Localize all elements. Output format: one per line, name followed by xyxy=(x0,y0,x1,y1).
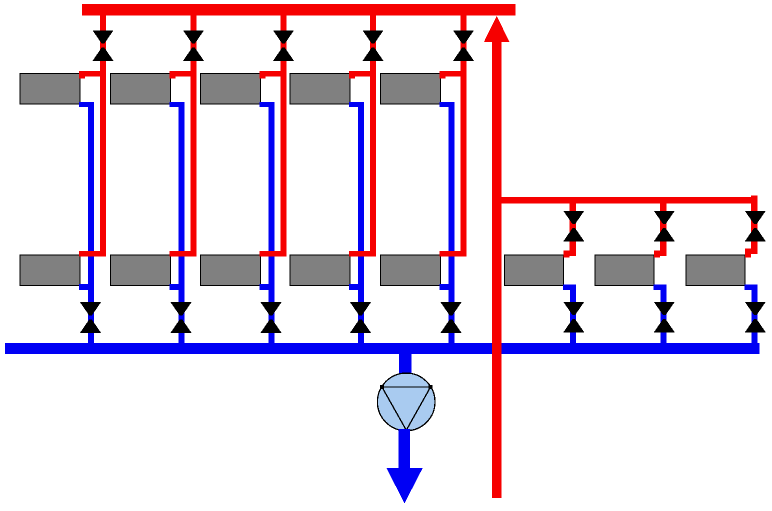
supply drop pipe, left column 3 (red) xyxy=(281,16,287,257)
radiator R9 (lower left row) xyxy=(290,255,350,286)
return drop pipe, left column 5 (blue) xyxy=(449,102,455,344)
branch supply pipe (red, to right) xyxy=(497,197,758,204)
valve V7 (supply, right branch column 2) xyxy=(654,211,675,242)
return stub from radiator R2 (blue elbow) xyxy=(170,102,185,107)
return drop pipe, right branch column 1 (blue) xyxy=(570,285,576,344)
return drop pipe, left column 2 (blue) xyxy=(179,102,185,344)
radiator R3 (upper left row) xyxy=(201,74,261,105)
pump discharge pipe (blue) xyxy=(399,429,411,469)
valve V9 (return, left column 1) xyxy=(80,302,101,333)
radiator R2 (upper left row) xyxy=(111,74,171,105)
radiator R12 (right branch row) xyxy=(595,255,654,286)
return drop pipe, left column 3 (blue) xyxy=(269,102,275,344)
radiator R13 (right branch row) xyxy=(686,255,745,286)
return stub from radiator R5 (blue elbow) xyxy=(440,102,455,107)
return stub from radiator R12 (blue elbow) xyxy=(654,285,666,290)
supply drop pipe, left column 1 (red) xyxy=(100,16,106,257)
return stub from radiator R10 (blue elbow) xyxy=(440,284,455,290)
pump suction pipe (blue tee from return main) xyxy=(399,353,411,375)
valve V12 (return, left column 4) xyxy=(350,302,371,333)
radiator R7 (lower left row) xyxy=(111,255,171,286)
supply flow arrow (red, up) xyxy=(484,16,509,42)
supply jog to radiator R13 (red elbow) xyxy=(745,248,757,257)
supply main pipe (red, top) xyxy=(82,4,516,16)
return main pipe (blue, bottom) xyxy=(5,343,759,354)
supply stub to radiator R5 (red elbow) xyxy=(440,71,467,79)
supply drop pipe, left column 5 (red) xyxy=(461,16,467,257)
riser pipe (red, vertical main) xyxy=(492,42,501,499)
return stub from radiator R6 (blue elbow) xyxy=(79,284,94,290)
radiator R4 (upper left row) xyxy=(290,74,350,105)
supply stub to radiator R8 (red elbow) xyxy=(260,251,287,256)
radiator R6 (lower left row) xyxy=(20,255,80,286)
return drop pipe, right branch column 2 (blue) xyxy=(660,285,666,344)
return stub from radiator R7 (blue elbow) xyxy=(170,284,185,290)
supply stub to radiator R1 (red elbow) xyxy=(79,71,106,79)
supply drop pipe, right branch column 3 (red) xyxy=(751,195,757,248)
supply jog to radiator R12 (red elbow) xyxy=(654,250,666,257)
supply drop pipe, left column 4 (red) xyxy=(370,16,376,257)
supply drop pipe, right branch column 2 (red) xyxy=(660,203,666,251)
supply stub to radiator R7 (red elbow) xyxy=(170,251,197,256)
valve V5 (supply, left column 5) xyxy=(453,30,474,61)
return drop pipe, left column 1 (blue) xyxy=(88,102,94,344)
return flow arrow (blue, down) xyxy=(386,468,423,504)
valve V15 (return, right branch column 2) xyxy=(654,302,675,333)
supply stub to radiator R2 (red elbow) xyxy=(170,71,197,79)
valve V2 (supply, left column 2) xyxy=(183,30,204,61)
return stub from radiator R13 (blue elbow) xyxy=(745,285,757,290)
return stub from radiator R9 (blue elbow) xyxy=(349,284,364,290)
valve V1 (supply, left column 1) xyxy=(93,30,114,61)
return stub from radiator R1 (blue elbow) xyxy=(79,102,94,107)
supply jog to radiator R11 (red elbow) xyxy=(563,250,575,257)
return stub from radiator R8 (blue elbow) xyxy=(260,284,275,290)
return drop pipe, right branch column 3 (blue) xyxy=(751,285,757,344)
supply drop pipe, right branch column 1 (red) xyxy=(570,203,576,251)
valve V6 (supply, right branch column 1) xyxy=(563,211,584,242)
return stub from radiator R11 (blue elbow) xyxy=(563,285,575,290)
supply stub to radiator R4 (red elbow) xyxy=(349,71,376,79)
radiator R8 (lower left row) xyxy=(201,255,261,286)
valve V13 (return, left column 5) xyxy=(441,302,462,333)
radiator R1 (upper left row) xyxy=(20,74,80,105)
supply stub to radiator R3 (red elbow) xyxy=(260,71,287,79)
return stub from radiator R4 (blue elbow) xyxy=(349,102,364,107)
radiator R5 (upper left row) xyxy=(381,74,441,105)
radiator R11 (right branch row) xyxy=(504,255,563,286)
valve V3 (supply, left column 3) xyxy=(273,30,294,61)
valve V16 (return, right branch column 3) xyxy=(745,302,766,333)
valve V10 (return, left column 2) xyxy=(171,302,192,333)
valve V14 (return, right branch column 1) xyxy=(563,302,584,333)
valve V8 (supply, right branch column 3) xyxy=(745,211,766,242)
supply stub to radiator R9 (red elbow) xyxy=(349,251,376,256)
valve V4 (supply, left column 4) xyxy=(363,30,384,61)
return stub from radiator R3 (blue elbow) xyxy=(260,102,275,107)
supply stub to radiator R10 (red elbow) xyxy=(440,251,467,256)
return drop pipe, left column 4 (blue) xyxy=(358,102,364,344)
supply stub to radiator R6 (red elbow) xyxy=(79,251,106,256)
supply drop pipe, left column 2 (red) xyxy=(191,16,197,257)
valve V11 (return, left column 3) xyxy=(261,302,282,333)
radiator R10 (lower left row) xyxy=(381,255,441,286)
pump P1 (circle with inscribed triangle) xyxy=(377,373,435,431)
